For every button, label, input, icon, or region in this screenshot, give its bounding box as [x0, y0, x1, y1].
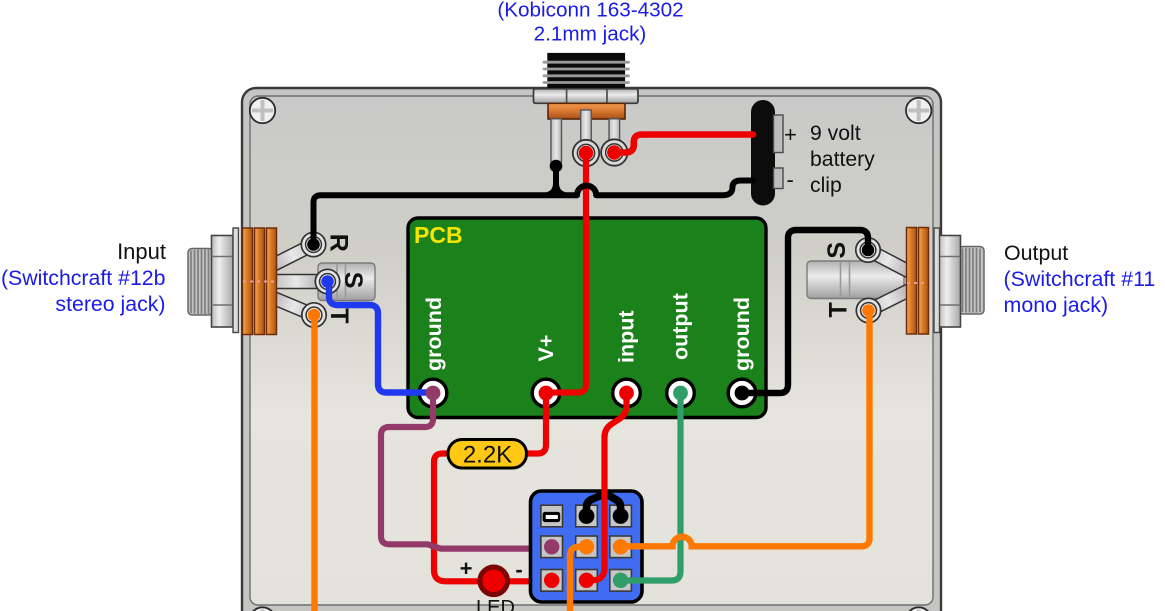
- svg-text:2.1mm jack): 2.1mm jack): [534, 23, 647, 46]
- wire black output S to ground pad: [745, 230, 868, 393]
- wire black junction from DC jack: [553, 166, 559, 194]
- input jack body box: [318, 263, 375, 301]
- svg-text:S: S: [339, 272, 367, 289]
- svg-text:clip: clip: [810, 174, 842, 197]
- input jack lug arm S: [272, 275, 320, 289]
- PCB pad input: [613, 379, 641, 407]
- PCB pad ground left: [419, 379, 447, 407]
- PCB pad dot ground right black: [735, 386, 750, 401]
- svg-text:2.2K: 2.2K: [463, 442, 512, 469]
- PCB pad dot V+ red: [539, 386, 554, 401]
- svg-text:stereo jack): stereo jack): [55, 292, 165, 316]
- battery clip tab -: [774, 168, 784, 189]
- svg-text:T: T: [825, 302, 853, 317]
- DC jack base: [548, 103, 625, 119]
- input jack copper strips: [243, 228, 277, 335]
- svg-text:-: -: [515, 557, 522, 582]
- switch indicator top-left: [543, 512, 561, 522]
- PCB pad V+: [532, 379, 560, 407]
- output jack lug arm S: [863, 243, 912, 277]
- wire orange output T to switch: [627, 311, 870, 547]
- DC jack barrel: [544, 53, 629, 89]
- output ring T: [856, 298, 880, 322]
- svg-text:(Switchcraft #12b: (Switchcraft #12b: [1, 266, 166, 290]
- enclosure: [242, 88, 941, 611]
- svg-text:V+: V+: [534, 335, 558, 362]
- wire red V+ from DC jack to PCB: [548, 153, 586, 393]
- svg-text:(Kobiconn 163-4302: (Kobiconn 163-4302: [497, 0, 683, 22]
- svg-text:S: S: [823, 242, 851, 259]
- input ring T: [302, 303, 326, 327]
- wire blue S to ground: [329, 285, 429, 393]
- svg-text:9 volt: 9 volt: [810, 122, 861, 145]
- switch dot purple: [544, 539, 559, 554]
- svg-text:ground: ground: [422, 297, 446, 371]
- switch pads row2: [541, 536, 563, 558]
- PCB: [408, 218, 766, 418]
- screw top-right: [906, 98, 931, 123]
- switch body: [531, 491, 643, 602]
- wire red battery plus: [614, 135, 753, 153]
- output jack threads: [959, 247, 984, 315]
- output jack dot T orange: [862, 304, 875, 317]
- input jack threads: [188, 249, 213, 316]
- wire orange switch middle down: [570, 547, 585, 611]
- output jack copper strips: [907, 228, 929, 335]
- svg-text:-: -: [787, 167, 794, 192]
- PCB pad dot output green: [673, 386, 688, 401]
- svg-text:+: +: [784, 122, 797, 147]
- output jack body box: [807, 261, 904, 299]
- input ring S: [315, 269, 339, 293]
- DC jack leg right: [609, 119, 620, 142]
- output jack washer: [934, 228, 940, 333]
- svg-text:+: +: [460, 556, 473, 581]
- DC jack leg center: [581, 110, 592, 144]
- jack dot T orange: [308, 309, 321, 322]
- switch dot red middle: [579, 573, 594, 588]
- input jack lug arm R: [268, 238, 318, 272]
- screw bottom-right: [906, 607, 931, 611]
- DC terminal center dot: [579, 146, 593, 160]
- screw top-left: [250, 98, 275, 123]
- DC terminal center ring: [573, 140, 599, 166]
- input jack nut: [212, 236, 234, 328]
- wire red resistor to LED to switch: [434, 454, 548, 582]
- PCB pad dot input red: [619, 386, 634, 401]
- jack dot S blue: [321, 275, 334, 288]
- PCB pad dot ground left purple: [426, 386, 441, 401]
- output jack nut: [939, 236, 961, 328]
- svg-text:ground: ground: [730, 297, 754, 371]
- svg-text:T: T: [325, 308, 353, 323]
- PCB pad output: [667, 379, 695, 407]
- svg-text:R: R: [325, 234, 353, 252]
- PCB pad ground right: [728, 379, 756, 407]
- svg-text:mono jack): mono jack): [1004, 293, 1109, 317]
- switch dot orange right: [613, 539, 628, 554]
- output jack dot S black: [862, 244, 875, 257]
- svg-text:(Switchcraft #11: (Switchcraft #11: [1004, 267, 1156, 291]
- svg-text:Input: Input: [117, 239, 166, 264]
- black jumper wire: [587, 495, 621, 512]
- svg-text:Output: Output: [1004, 241, 1068, 265]
- black dot junction: [550, 160, 563, 173]
- resistor 2.2K: [448, 440, 527, 469]
- switch pads row3: [541, 570, 563, 592]
- wire red V+ pad to resistor: [527, 393, 546, 454]
- wire green output pad to switch: [625, 393, 681, 581]
- input ring R: [301, 232, 325, 256]
- wire purple ground pad to switch: [381, 393, 548, 549]
- screw bottom-left: [250, 607, 275, 611]
- battery clip tab +: [774, 115, 784, 153]
- jack dot R black: [307, 238, 320, 251]
- DC jack leg left: [551, 119, 562, 162]
- svg-text:output: output: [669, 293, 693, 360]
- DC terminal right ring: [601, 139, 627, 165]
- switch dot red left: [544, 573, 559, 588]
- output jack centerline mark: [907, 282, 928, 284]
- wire black ground bus: [314, 181, 754, 245]
- switch dot green right: [613, 573, 628, 588]
- output ring S: [856, 238, 880, 262]
- DC terminal right dot: [607, 145, 621, 159]
- svg-text:battery: battery: [810, 148, 875, 171]
- svg-text:input: input: [615, 310, 639, 363]
- DC jack nut: [534, 89, 639, 104]
- switch black lug top-right: [613, 508, 629, 524]
- svg-text:PCB: PCB: [414, 222, 463, 248]
- switch pads row1: [541, 505, 563, 527]
- output jack lug arm T: [864, 284, 913, 317]
- wire red input pad to switch: [590, 393, 627, 580]
- switch black lug top-middle: [579, 508, 595, 524]
- LED: [480, 567, 508, 595]
- input jack washer: [233, 228, 239, 333]
- wire orange input T down: [311, 315, 317, 611]
- enclosure inner bevel: [250, 96, 933, 605]
- switch dot orange middle: [579, 539, 594, 554]
- battery clip body: [751, 100, 775, 206]
- input jack centerline mark: [243, 281, 276, 283]
- svg-text:LED: LED: [476, 597, 515, 611]
- input jack lug arm T: [268, 291, 318, 322]
